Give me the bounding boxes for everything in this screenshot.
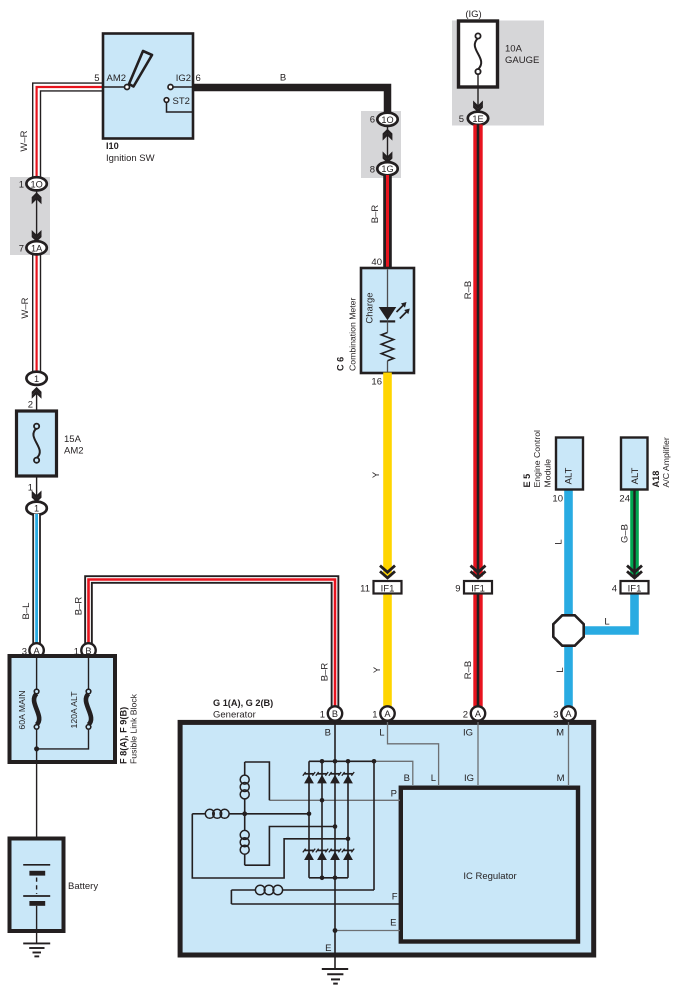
svg-text:7: 7 xyxy=(19,244,24,255)
svg-text:11: 11 xyxy=(360,584,370,595)
label B-R near fusible link xyxy=(74,597,85,616)
pin number 16 xyxy=(371,377,382,388)
stator neutral line to first leg xyxy=(245,813,309,815)
connector IF1 pin 9 xyxy=(464,581,492,594)
svg-text:120A ALT: 120A ALT xyxy=(69,691,79,729)
svg-text:1: 1 xyxy=(320,710,325,721)
label 120A ALT xyxy=(69,691,79,729)
ignition key lever xyxy=(129,51,152,87)
phase tap junction dots xyxy=(307,798,351,841)
arrow up toward middle 1O xyxy=(383,129,393,141)
stator coil upper xyxy=(240,762,269,831)
diode D3 upper xyxy=(329,772,341,783)
svg-text:2: 2 xyxy=(463,710,468,721)
pin number 3 at terminal A xyxy=(22,647,27,658)
svg-text:1: 1 xyxy=(34,374,39,384)
wire B-R from 1G to combination meter pin 40 xyxy=(383,175,392,268)
lead line out of 15A fuse xyxy=(36,476,38,501)
wire G-B from A/C amplifier to IF1 4 xyxy=(630,490,639,577)
arrow down toward IF1 11 xyxy=(380,566,395,578)
arrow down toward IF1 9 xyxy=(471,566,486,578)
svg-text:IF1: IF1 xyxy=(628,583,642,594)
wire L blue from splice to IF1 4 xyxy=(582,594,635,631)
junction dot on E line xyxy=(333,928,338,933)
contact AM2 xyxy=(125,85,130,90)
terminal name labels row under terminals xyxy=(325,728,564,739)
label L on horizontal splice wire xyxy=(604,617,609,628)
pin number 6 at middle 1O xyxy=(370,115,375,126)
stator lower hook to third leg xyxy=(245,827,335,866)
label E 5 Engine Control Module xyxy=(522,430,553,488)
svg-text:AM2: AM2 xyxy=(107,73,127,84)
wire E line to IC regulator xyxy=(335,930,400,932)
fusible link 60A MAIN xyxy=(34,658,39,753)
svg-text:Y: Y xyxy=(371,471,382,478)
junction dots on bottom rail xyxy=(320,876,338,881)
ignition switch I10 box xyxy=(103,34,193,139)
lead line into 15A fuse xyxy=(36,392,38,411)
svg-text:B–L: B–L xyxy=(21,603,32,620)
label F 8(A), F 9(B) Fusible Link Block xyxy=(119,693,139,764)
rectifier top rail xyxy=(309,760,374,762)
label B-L xyxy=(21,603,32,620)
fuse element 10A GAUGE xyxy=(475,33,481,74)
label 60A MAIN xyxy=(17,690,27,729)
connector link line between middle 1O and 1G xyxy=(387,126,389,162)
svg-text:Generator: Generator xyxy=(213,710,256,721)
LED emission arrows xyxy=(397,302,410,319)
wire B-L from connector to fusible link block xyxy=(32,514,41,645)
shield gray band left connector 1O/1A xyxy=(10,177,50,255)
svg-text:GAUGE: GAUGE xyxy=(505,55,539,66)
svg-text:C 6: C 6 xyxy=(336,357,346,371)
pin number 40 xyxy=(371,257,382,268)
pin label E at IC regulator xyxy=(390,918,396,929)
svg-text:9: 9 xyxy=(455,584,460,595)
ground below generator xyxy=(322,969,348,984)
fuse element 15A AM2 xyxy=(33,424,39,463)
svg-text:W–R: W–R xyxy=(19,130,30,151)
wire E column to ground xyxy=(334,878,336,969)
charge LED diode xyxy=(379,307,397,321)
svg-text:L: L xyxy=(604,617,609,628)
ECM box E5 ALT xyxy=(556,438,583,490)
svg-text:P: P xyxy=(391,789,397,800)
svg-text:G 1(A), G 2(B): G 1(A), G 2(B) xyxy=(213,698,273,708)
battery box xyxy=(10,839,64,932)
svg-text:6: 6 xyxy=(196,73,201,84)
wire R-B from IF1 9 to generator terminal 2(A) xyxy=(473,594,482,708)
wire inside I10 to AM2 contact xyxy=(103,86,125,88)
pin number 10 xyxy=(552,494,563,505)
junction dot in fusible link block xyxy=(34,746,39,751)
svg-text:B–R: B–R xyxy=(370,205,381,224)
terminal circle B of fusible link block xyxy=(81,643,95,657)
label C 6 Combination Meter xyxy=(336,297,358,371)
svg-text:ST2: ST2 xyxy=(173,96,190,107)
svg-text:IF1: IF1 xyxy=(381,583,395,594)
wire IG internal from terminal 2(A) to IC regulator xyxy=(477,722,479,785)
arrow down toward 1A xyxy=(32,230,42,242)
arrow up toward oval 1 xyxy=(32,387,42,399)
fuse 10A GAUGE box xyxy=(459,21,498,87)
connector oval 1 above 15A fuse xyxy=(26,372,46,385)
wire M internal from terminal 3(A) to IC regulator xyxy=(568,722,570,785)
fuse 15A AM2 box xyxy=(17,411,57,476)
svg-text:G–B: G–B xyxy=(620,524,631,543)
label G-B xyxy=(620,524,631,543)
svg-text:5: 5 xyxy=(94,73,99,84)
wire L internal from terminal 1(A) to IC regulator xyxy=(388,722,439,785)
wire Y from IF1 to generator terminal 1(A) xyxy=(383,594,392,708)
pin number 11 xyxy=(360,584,370,595)
svg-text:1O: 1O xyxy=(30,179,42,189)
svg-text:B: B xyxy=(280,73,286,84)
contact ST2 and stub wire xyxy=(164,98,193,112)
pin number 7 at connector 1A xyxy=(19,244,24,255)
pin number 4 xyxy=(612,584,617,595)
contact IG2 xyxy=(168,85,173,90)
svg-text:F 8(A), F 9(B): F 8(A), F 9(B) xyxy=(119,707,129,764)
label 15A AM2 xyxy=(64,434,84,457)
pin number 1 at 1(A) xyxy=(372,710,377,721)
junction dots on top rail xyxy=(320,759,377,764)
label W-R lower xyxy=(20,297,31,318)
svg-text:R–B: R–B xyxy=(463,281,474,299)
label 10A GAUGE xyxy=(505,44,539,67)
IC regulator box xyxy=(401,788,578,942)
label Battery xyxy=(68,881,98,892)
label ST2 xyxy=(173,96,190,107)
svg-text:A: A xyxy=(384,709,391,719)
svg-text:3: 3 xyxy=(553,710,558,721)
diode D7 lower xyxy=(329,849,341,860)
rectifier right vertical to field xyxy=(373,761,375,890)
fusible link block box F8 F9 xyxy=(10,656,116,762)
label Y lower xyxy=(372,666,383,673)
label B on black wire xyxy=(280,73,286,84)
wire inside I10 from IG2 contact xyxy=(173,86,193,88)
wire B thick from ignition switch IG2 to connector 1O xyxy=(193,88,388,115)
pin number 9 xyxy=(455,584,460,595)
svg-text:10A: 10A xyxy=(505,44,523,55)
diode D4 upper xyxy=(342,772,354,783)
svg-text:B–R: B–R xyxy=(74,597,85,616)
svg-text:1: 1 xyxy=(19,180,24,191)
pin number 5 at 1E xyxy=(459,114,464,125)
shield gray band middle connector 1O/1G xyxy=(361,111,401,178)
splice octagon junction xyxy=(553,615,583,645)
label L lower near generator xyxy=(555,667,566,672)
ground below battery xyxy=(23,943,50,956)
label R-B upper xyxy=(463,281,474,299)
internal lead in meter xyxy=(387,270,389,308)
rectifier bottom rail xyxy=(309,877,348,879)
pin label F xyxy=(392,892,398,903)
svg-text:IG2: IG2 xyxy=(176,73,191,84)
pin number 1 at terminal B xyxy=(74,647,79,658)
svg-text:60A MAIN: 60A MAIN xyxy=(17,690,27,729)
resistor in meter xyxy=(381,333,393,361)
svg-text:L: L xyxy=(555,667,566,672)
fusible link 120A ALT xyxy=(37,658,91,749)
lead from resistor to box bottom xyxy=(387,361,389,372)
field coil xyxy=(231,885,374,904)
pin number 1 at connector 1O xyxy=(19,180,24,191)
wire L blue from ECM to splice xyxy=(564,490,573,616)
label Y upper xyxy=(371,471,382,478)
svg-text:I10: I10 xyxy=(106,141,119,151)
svg-text:(IG): (IG) xyxy=(465,9,481,20)
svg-text:10: 10 xyxy=(552,494,563,505)
label W-R upper xyxy=(19,130,30,151)
svg-text:E 5: E 5 xyxy=(522,474,532,488)
wire R-B from 1E to IF1 9 xyxy=(473,125,482,577)
A/C amplifier box A18 ALT xyxy=(621,438,648,490)
pin number 2 of 15A fuse xyxy=(28,400,33,411)
label A18 A/C Amplifier xyxy=(651,437,671,487)
svg-text:IF1: IF1 xyxy=(471,583,485,594)
wire W-R from connector 1A down to connector 1 xyxy=(32,248,41,372)
pin label E at generator bottom xyxy=(325,943,331,954)
terminal circle A of fusible link block xyxy=(29,643,43,657)
svg-text:F: F xyxy=(392,892,398,903)
pin label P xyxy=(391,789,397,800)
svg-text:A/C Amplifier: A/C Amplifier xyxy=(661,437,671,487)
pin number 1 of 15A fuse xyxy=(28,483,33,494)
svg-text:1: 1 xyxy=(372,710,377,721)
battery symbol xyxy=(23,865,50,944)
stator coil horizontal xyxy=(192,809,244,818)
label L on ECM wire xyxy=(554,539,565,544)
svg-text:L: L xyxy=(554,539,565,544)
svg-text:1A: 1A xyxy=(31,243,43,253)
connector oval 1E xyxy=(468,112,488,125)
wire Y from meter pin 16 to IF1 xyxy=(383,373,392,577)
wire B internal from rectifier rail to IC regulator xyxy=(374,761,413,785)
svg-text:M: M xyxy=(556,728,564,739)
svg-text:15A: 15A xyxy=(64,434,82,445)
wire L blue from splice to generator terminal 3(A) xyxy=(564,645,573,707)
svg-text:IG: IG xyxy=(464,773,474,784)
pin number 8 at 1G xyxy=(370,165,375,176)
svg-text:Y: Y xyxy=(372,666,383,673)
svg-text:IC Regulator: IC Regulator xyxy=(463,871,516,882)
svg-text:Engine Control: Engine Control xyxy=(532,430,542,488)
svg-text:A: A xyxy=(565,709,572,719)
svg-text:5: 5 xyxy=(459,114,464,125)
pin labels at IC regulator top xyxy=(404,773,565,784)
svg-text:1O: 1O xyxy=(381,115,393,125)
generator terminal 1(B) xyxy=(328,706,342,720)
label R-B lower xyxy=(463,661,474,679)
label B-R near generator xyxy=(320,663,331,682)
wire F line from field coil to IC regulator xyxy=(231,903,400,905)
diode D2 upper xyxy=(316,772,328,783)
diode D6 lower xyxy=(316,849,328,860)
combination meter C6 box xyxy=(361,268,414,373)
connector IF1 pin 11 xyxy=(374,581,402,594)
svg-text:A: A xyxy=(475,709,482,719)
pin number 1 at 1(B) xyxy=(320,710,325,721)
diode D5 lower xyxy=(303,849,315,860)
label B-R middle xyxy=(370,205,381,224)
svg-text:B: B xyxy=(332,709,338,719)
svg-text:Battery: Battery xyxy=(68,881,98,892)
pin label IG2 6 xyxy=(176,73,201,84)
wire W-R from ignition switch AM2 to connector 1O xyxy=(37,87,193,184)
pin number 2 at 2(A) xyxy=(463,710,468,721)
connector IF1 pin 4 xyxy=(621,581,649,594)
label G 1(A), G 2(B) Generator xyxy=(213,698,273,721)
generator terminal 3(A) xyxy=(561,706,575,720)
svg-text:B: B xyxy=(404,773,410,784)
shield gray band fuse 10A GAUGE xyxy=(452,21,544,126)
connector oval 1O (middle) xyxy=(377,113,397,126)
stator left loop to fourth leg xyxy=(192,814,348,878)
svg-text:Fusible Link Block: Fusible Link Block xyxy=(129,693,139,764)
arrow down toward oval 1 below fuse xyxy=(32,491,42,503)
lead from fuse to connector 1E xyxy=(477,74,479,106)
svg-text:B: B xyxy=(325,728,331,739)
svg-text:L: L xyxy=(379,728,384,739)
connector oval 1 below 15A fuse xyxy=(26,502,46,515)
svg-text:IG: IG xyxy=(463,728,473,739)
svg-text:B–R: B–R xyxy=(320,663,331,682)
stator center junction dot xyxy=(242,811,247,816)
rectifier column legs xyxy=(309,761,348,878)
lead between LED and resistor xyxy=(387,321,389,332)
svg-text:1E: 1E xyxy=(472,114,483,124)
svg-text:4: 4 xyxy=(612,584,617,595)
svg-text:W–R: W–R xyxy=(20,297,31,318)
svg-text:AM2: AM2 xyxy=(64,446,84,457)
diode D1 upper xyxy=(303,772,315,783)
label I10 Ignition SW xyxy=(106,141,155,164)
svg-text:E: E xyxy=(390,918,396,929)
arrow down toward 1G xyxy=(383,151,393,163)
connector oval 1O (left) xyxy=(26,177,46,190)
label Charge xyxy=(364,292,375,323)
pin label 5 AM2 xyxy=(94,73,126,84)
wire P rail to IC regulator xyxy=(269,799,400,801)
pin number 3 at 3(A) xyxy=(553,710,558,721)
label (IG) xyxy=(465,9,481,20)
svg-text:24: 24 xyxy=(619,494,630,505)
connector oval 1A (left) xyxy=(26,241,46,254)
generator box xyxy=(180,722,594,955)
svg-text:ALT: ALT xyxy=(630,467,641,484)
svg-text:1: 1 xyxy=(34,504,39,514)
svg-text:8: 8 xyxy=(370,165,375,176)
svg-text:Ignition SW: Ignition SW xyxy=(106,153,155,164)
wire B drop from terminal 1(B) xyxy=(334,722,336,761)
connector oval 1G xyxy=(377,162,397,175)
svg-text:E: E xyxy=(325,943,331,954)
wire B-R from fusible link B to generator terminal 1(B) xyxy=(89,580,336,708)
svg-text:2: 2 xyxy=(28,400,33,411)
svg-text:M: M xyxy=(557,773,565,784)
wire from fusible link block to battery xyxy=(36,749,38,865)
svg-text:Charge: Charge xyxy=(364,292,375,323)
svg-text:1G: 1G xyxy=(381,164,393,174)
arrow down toward IF1 4 xyxy=(627,566,642,578)
generator terminal 2(A) xyxy=(471,706,485,720)
svg-text:A18: A18 xyxy=(651,471,661,488)
svg-text:ALT: ALT xyxy=(564,467,575,484)
svg-text:Combination Meter: Combination Meter xyxy=(348,297,358,371)
diode D8 lower xyxy=(342,849,354,860)
svg-text:R–B: R–B xyxy=(463,661,474,679)
pin number 24 xyxy=(619,494,630,505)
arrow down toward 1E xyxy=(473,101,483,113)
svg-text:16: 16 xyxy=(371,377,382,388)
svg-text:40: 40 xyxy=(371,257,382,268)
svg-text:6: 6 xyxy=(370,115,375,126)
arrow up toward 1O xyxy=(32,192,42,204)
svg-text:Module: Module xyxy=(543,459,553,488)
generator terminal 1(A) xyxy=(380,706,394,720)
svg-text:L: L xyxy=(431,773,436,784)
stator coil lower xyxy=(240,830,249,865)
connector link line between 1O and 1A xyxy=(36,191,38,242)
